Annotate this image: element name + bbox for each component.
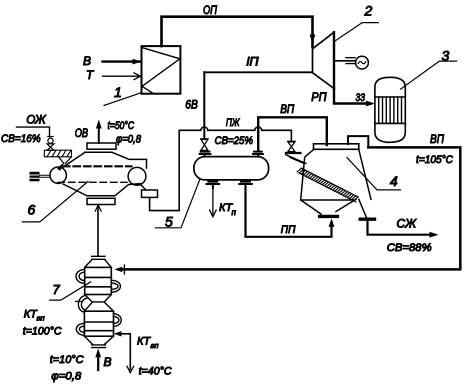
turbine right edge thick [333,32,335,88]
svg-text:В: В [83,54,91,68]
furnace internal diagonals [142,48,180,94]
svg-text:КТ: КТ [137,336,151,348]
svg-text:вп: вп [37,314,45,323]
duct step from dryer4 lid [348,136,368,147]
c7 ear upper left inner [79,272,85,280]
arrow open up on 6-7 line [95,205,101,211]
svg-text:ВП: ВП [280,102,294,116]
svg-text:Т: Т [86,68,95,82]
drum6 right journal circle [128,167,146,185]
wire VP exhaust long line right and down and left to condenser7 [123,147,460,269]
condenser U3 shell [375,77,405,142]
c7 upper bottom cone [85,295,112,302]
dryer4 bottom outlet flange [320,215,338,218]
svg-text:5: 5 [165,214,173,230]
dryer4 left shoulder and wall [301,150,314,200]
svg-text:вп: вп [151,341,159,350]
dryer4 right wall [359,150,371,200]
generator G circle [356,56,369,69]
wire PZh path from drum6 outlet over crossings to dryer4 feed valve [150,127,292,211]
tank5 bottom left nozzle [207,182,220,188]
svg-text:1: 1 [114,84,122,100]
c7 ear upper left outer [76,269,85,283]
svg-text:φ=0,8: φ=0,8 [51,371,82,383]
dryer4 inclined chute [286,155,306,164]
drum dryer U6 top flange [87,143,116,149]
drum6 axis dashed upper [63,165,132,167]
leader 3 with shelf [401,61,457,89]
arrow SG right [430,232,439,238]
arrow KTvp left into c7 [114,331,122,336]
valve V6 on OZh feed [47,137,54,151]
c7 waist left loop outer [78,295,85,312]
c7 bottom cone [84,336,113,344]
arrow PP up into dryer4 [329,218,335,227]
wire 33 line turbine to condenser [334,89,371,104]
c7 ear lower right inner [114,317,119,324]
c7 lower body [84,311,113,336]
svg-text:t=105°С: t=105°С [416,154,453,166]
leader 7 with shelf [50,282,91,300]
arrow B solid into furnace [133,59,142,65]
svg-text:ОП: ОП [203,3,217,17]
SG outlet flange [360,217,374,220]
arrow B up into c7 [95,349,101,358]
tank5 bottom right nozzle [239,182,252,188]
arrow return into condenser7 [114,267,122,272]
drum6 feeder hatched bar [44,150,71,157]
arrow OP down into turbine [310,35,316,44]
dryer4 screw conveyor band [297,168,358,202]
arrow 33 into condenser [366,101,375,107]
svg-text:33: 33 [356,92,366,104]
svg-text:φ=0,8: φ=0,8 [116,134,142,146]
svg-text:іП: іП [247,55,259,69]
drum6 axis dashed lower [58,181,127,183]
arrow KTvp open down [127,366,134,372]
generator shaft [334,60,356,62]
arrow OV up [96,120,102,129]
wire KTp drain [212,188,214,216]
svg-text:СЖ: СЖ [397,217,417,231]
wire drum6 to condenser7 [97,205,99,256]
svg-text:6В: 6В [185,98,198,112]
arrow feed into drum [61,163,64,166]
dryer4 bottom line [301,199,354,201]
wire VP from tank5 to dryer4 lid [258,117,327,150]
c7 ear lower left inner [79,326,84,332]
svg-text:2: 2 [364,3,373,19]
c7 waist loop tick [76,300,82,302]
condenser tube plates [375,97,405,123]
arrow T open into furnace [134,73,141,80]
c7 upper cone [85,259,112,267]
generator tilde [358,61,366,63]
wire B inlet line [103,60,141,62]
dryer4 feed chute flange [286,152,301,154]
wire KTvp outlet right [121,334,131,370]
wire PP line to dryer4 bottom [246,188,332,237]
drum6 bottom flange [87,198,115,204]
svg-text:t=10°С: t=10°С [50,354,84,366]
tank5 right top nozzle flange [253,152,263,157]
c7 ear upper right outer [111,280,120,292]
condenser tubes [379,97,402,123]
c7 upper body [85,267,112,294]
svg-text:СВ=88%: СВ=88% [387,242,432,254]
tank5 left top nozzle flange [200,152,211,157]
svg-text:t=50°С: t=50°С [108,120,135,132]
svg-text:6: 6 [28,202,36,218]
c7 bottom flange [92,345,106,348]
dryer U4 lid [314,144,359,150]
dryer4 discharge chute to SG outlet [359,199,367,217]
drum6 outline [62,152,147,196]
c7 top flange [92,256,105,259]
c7 ear lower right outer [114,314,122,327]
leader 1 [104,93,142,106]
drum6 right outlet to flange [140,184,146,190]
svg-text:4: 4 [390,173,398,189]
c7 lower top cone [84,302,113,311]
svg-text:СВ=25%: СВ=25% [215,135,254,147]
dryer4 cone [301,199,356,214]
wire 6V vertical from iP to tank5 valve [203,72,205,138]
wire B water inlet bottom [97,356,99,370]
svg-text:ВП: ВП [430,132,444,146]
svg-text:t=40°С: t=40°С [139,366,172,378]
c7 ear lower left outer [76,323,84,335]
drum6 left journal circle [50,167,66,183]
svg-text:п: п [232,208,237,217]
leader 6 with shelf [23,182,89,222]
svg-text:РП: РП [311,90,327,104]
leader 2 with shelf [335,23,379,42]
turbine U2 [313,32,335,88]
svg-text:ОЖ: ОЖ [26,113,46,127]
drum6 drive motor [30,172,40,182]
furnace U1 box [142,46,181,94]
arrow KTp open down [210,210,217,217]
wire OZh feed with shelf corner [17,127,50,136]
wire OP line from furnace top to turbine [162,17,313,47]
c7 waist left loop inner [81,298,86,310]
svg-text:В: В [104,355,112,369]
flange tick on return line [123,265,125,274]
svg-text:ПП: ПП [281,224,296,236]
svg-text:ПЖ: ПЖ [226,117,240,129]
svg-text:ОВ: ОВ [75,126,88,140]
wire SG product line [368,219,435,235]
svg-text:3: 3 [442,48,450,64]
svg-text:СВ=16%: СВ=16% [1,133,41,145]
svg-text:t=100°С: t=100°С [23,326,62,338]
valve V4 at dryer4 feed [288,141,295,151]
drum6 feed funnel [59,157,72,164]
wire T inlet line [103,75,141,77]
generator coupling marks [346,58,355,64]
condenser stack U7 [76,256,122,347]
leader 4 with shelf [347,158,400,190]
tank U5 body [194,157,269,180]
valve V5a above tank5 left nozzle [201,139,208,151]
wire iP line [204,71,312,73]
svg-text:7: 7 [53,282,61,297]
c7 ear upper right inner [111,283,118,289]
drum6 shaft [40,175,51,177]
leader 5 with shelf [155,180,199,228]
wire OV vent up [98,126,100,143]
drum6 outlet flange box [142,190,158,197]
